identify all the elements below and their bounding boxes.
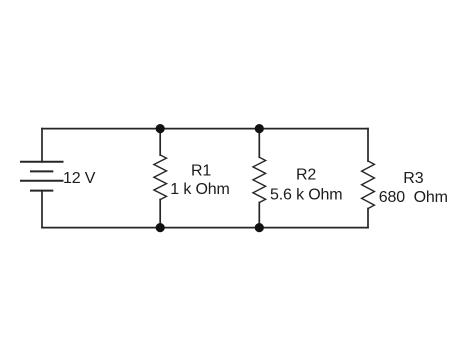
wire R3 top lead bbox=[367, 129, 369, 161]
battery B1 plate short upper bbox=[31, 170, 52, 172]
svg-text:R1: R1 bbox=[191, 163, 211, 180]
svg-text:R2: R2 bbox=[296, 167, 316, 184]
wire R1 top lead bbox=[159, 129, 161, 155]
wire top bus bbox=[42, 128, 368, 130]
wire R1 bottom lead bbox=[159, 200, 161, 228]
svg-text:12 V: 12 V bbox=[63, 170, 96, 187]
battery B1 plate long top bbox=[21, 161, 63, 163]
battery B1 plate long bottom bbox=[21, 180, 63, 182]
svg-text:5.6 k Ohm: 5.6 k Ohm bbox=[270, 186, 342, 203]
node junction R1 bottom bbox=[156, 223, 165, 232]
wire R2 bottom lead bbox=[258, 203, 260, 228]
wire battery bottom lead bbox=[41, 191, 43, 228]
wire R2 top lead bbox=[258, 129, 260, 158]
svg-text:1 k Ohm: 1 k Ohm bbox=[170, 181, 229, 198]
wire battery top lead bbox=[41, 129, 43, 162]
resistor R2 bbox=[253, 157, 266, 202]
resistor R1 bbox=[154, 155, 167, 200]
node junction R2 bottom bbox=[255, 223, 264, 232]
node junction R1 top bbox=[156, 124, 165, 133]
svg-text:R3: R3 bbox=[403, 170, 423, 187]
wire R3 bottom lead bbox=[367, 209, 369, 228]
resistor R3 bbox=[362, 161, 375, 209]
node junction R2 top bbox=[255, 124, 264, 133]
svg-text:680 Ohm: 680 Ohm bbox=[379, 189, 448, 206]
battery B1 plate short lower bbox=[31, 190, 52, 192]
wire bottom bus bbox=[42, 227, 368, 229]
